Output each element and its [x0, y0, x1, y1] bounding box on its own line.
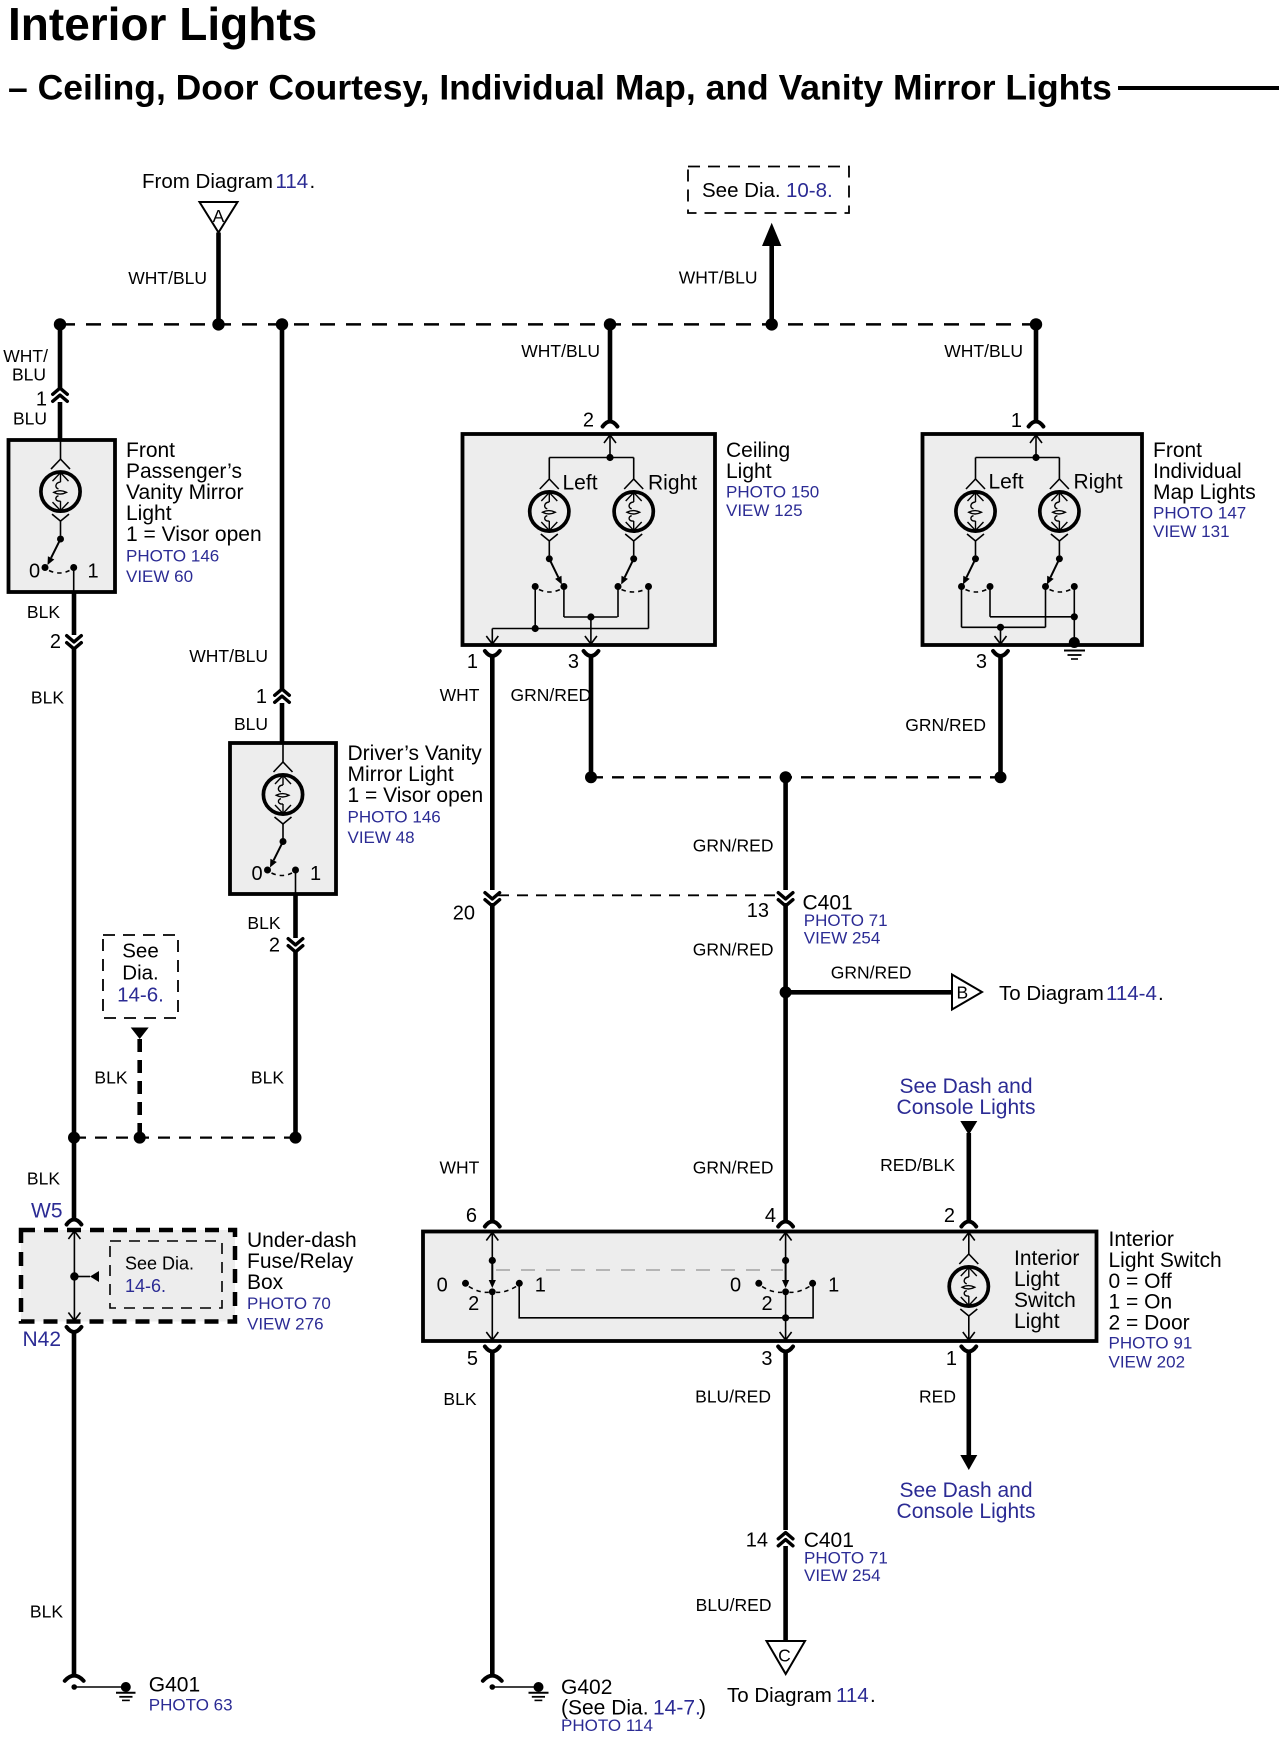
wire to lower junction: [293, 951, 298, 1138]
svg-text:Dia.: Dia.: [122, 962, 158, 985]
connector A triangle: [200, 202, 238, 233]
switch mechanical link (dashed gray): [496, 1269, 783, 1271]
wire bus to map lights: [1034, 324, 1039, 420]
ceiling left switch: [532, 555, 568, 617]
svg-text:PHOTO 71: PHOTO 71: [804, 911, 888, 930]
svg-text:GRN/RED: GRN/RED: [831, 963, 912, 983]
terminal 3 (ceiling): [568, 651, 599, 673]
svg-text:14-6.: 14-6.: [117, 984, 164, 1007]
label C401 lower: [804, 1529, 888, 1585]
svg-text:VIEW 60: VIEW 60: [126, 567, 193, 586]
wire GRN/RED to C401: [783, 777, 788, 890]
label interior light switch: [1109, 1228, 1222, 1372]
svg-text:BLK: BLK: [443, 1389, 476, 1409]
svg-text:GRN/RED: GRN/RED: [693, 1158, 774, 1178]
switch 4-3: [730, 1233, 839, 1341]
svg-text:Fuse/Relay: Fuse/Relay: [247, 1250, 354, 1273]
connector 1 (passenger vanity): [36, 388, 67, 410]
svg-text:2: 2: [50, 631, 61, 653]
svg-text:2: 2: [944, 1205, 955, 1227]
svg-text:VIEW 276: VIEW 276: [247, 1315, 324, 1334]
arrow down from see-dash: [960, 1121, 977, 1135]
wire map pin3 GRN/RED down: [998, 656, 1003, 777]
map left bulb: [956, 458, 995, 556]
svg-text:Ceiling: Ceiling: [726, 439, 790, 462]
under-dash fuse/relay box: [21, 1230, 235, 1322]
svg-text:From Diagram: From Diagram: [142, 170, 273, 193]
passenger vanity switch: [29, 536, 99, 593]
svg-text:B: B: [957, 983, 969, 1003]
svg-text:BLU: BLU: [234, 714, 268, 734]
svg-text:Under-dash: Under-dash: [247, 1229, 357, 1252]
terminal W5: [31, 1200, 81, 1225]
wire into vanity box: [58, 402, 63, 440]
label interior light switch light: [1014, 1247, 1079, 1333]
wire below driver box: [293, 894, 298, 938]
connector 2 (passenger vanity): [50, 631, 81, 653]
terminal pin 2: [961, 1222, 976, 1227]
arrow down RED: [960, 1455, 977, 1470]
svg-text:To Diagram: To Diagram: [999, 982, 1104, 1005]
wire bus to driver vanity: [280, 324, 285, 691]
svg-text:1: 1: [88, 561, 99, 583]
label To Diagram 114: [727, 1684, 876, 1707]
wire RED pin1 down: [966, 1351, 971, 1456]
svg-text:Left: Left: [563, 472, 598, 495]
svg-text:RED/BLK: RED/BLK: [880, 1155, 955, 1175]
svg-text:Box: Box: [247, 1271, 284, 1294]
header rule: [1118, 86, 1279, 90]
wire BLU/RED to connector C: [783, 1546, 788, 1641]
svg-text:GRN/RED: GRN/RED: [693, 940, 774, 960]
svg-text:Driver’s Vanity: Driver’s Vanity: [348, 742, 483, 765]
label ceiling light: [726, 439, 819, 520]
terminal pin 1: [961, 1347, 976, 1352]
terminal 3 (map): [976, 651, 1008, 673]
svg-text:Front: Front: [1153, 439, 1202, 462]
front passenger vanity mirror light box: [9, 440, 116, 592]
svg-text:0: 0: [252, 863, 263, 885]
bus junction x=771.7: [766, 318, 778, 330]
svg-text:PHOTO 91: PHOTO 91: [1109, 1334, 1193, 1353]
svg-text:1 = Visor open: 1 = Visor open: [348, 784, 484, 807]
svg-text:WHT: WHT: [440, 685, 480, 705]
front individual map lights box: [923, 434, 1143, 645]
svg-text:2: 2: [761, 1293, 772, 1315]
svg-text:Individual: Individual: [1153, 460, 1242, 483]
terminal pin 6: [485, 1222, 500, 1227]
svg-text:.: .: [1158, 982, 1164, 1005]
terminal 2 (ceiling light): [583, 410, 618, 432]
svg-text:See Dash and: See Dash and: [899, 1479, 1032, 1502]
wire GRN/RED to switch pin 4: [783, 903, 788, 1222]
terminal N42: [22, 1327, 81, 1351]
map internal feed: [976, 435, 1060, 461]
wire junction to W5: [72, 1138, 77, 1218]
connector C triangle: [767, 1641, 806, 1674]
svg-text:1 = Visor open: 1 = Visor open: [126, 523, 262, 546]
ceiling right switch: [615, 555, 653, 628]
svg-text:G401: G401: [149, 1674, 200, 1697]
ceiling pin3 collector: [564, 613, 618, 644]
svg-text:Interior: Interior: [1109, 1228, 1174, 1251]
svg-text:W5: W5: [31, 1200, 63, 1223]
wire ceiling pin3 GRN/RED down: [589, 656, 594, 777]
svg-text:Right: Right: [1074, 471, 1123, 494]
terminal pin 3: [778, 1347, 793, 1352]
svg-text:Light: Light: [1014, 1268, 1060, 1291]
junction dot B branch: [780, 986, 792, 998]
junction dot: [780, 771, 792, 783]
svg-text:See: See: [122, 940, 158, 963]
dashed BLK wire: [137, 1039, 142, 1138]
svg-text:4: 4: [765, 1205, 776, 1227]
ceiling right bulb: [614, 458, 653, 556]
driver vanity mirror light box: [230, 743, 336, 894]
svg-text:6: 6: [466, 1205, 477, 1227]
svg-text:1: 1: [256, 686, 267, 708]
svg-text:14-7.: 14-7.: [653, 1697, 701, 1720]
svg-text:3: 3: [568, 651, 579, 673]
svg-text:0: 0: [730, 1275, 741, 1297]
svg-text:WHT/BLU: WHT/BLU: [128, 268, 207, 288]
svg-text:BLK: BLK: [251, 1068, 284, 1088]
svg-text:C: C: [778, 1646, 791, 1666]
svg-text:1: 1: [310, 863, 321, 885]
svg-text:BLU: BLU: [13, 409, 47, 429]
svg-text:3: 3: [976, 651, 987, 673]
svg-text:PHOTO 71: PHOTO 71: [804, 1549, 888, 1568]
lower junction dashed bus: [74, 1136, 296, 1138]
svg-text:See Dia.: See Dia.: [125, 1254, 194, 1274]
svg-text:Mirror Light: Mirror Light: [348, 763, 454, 786]
svg-text:Console Lights: Console Lights: [897, 1500, 1036, 1523]
arrow down from See Dia 14-6: [131, 1028, 149, 1040]
svg-text:Switch: Switch: [1014, 1289, 1076, 1312]
arrow up to See Dia 10-8: [762, 223, 781, 325]
svg-text:VIEW 254: VIEW 254: [804, 1566, 881, 1585]
svg-text:5: 5: [467, 1348, 478, 1370]
connector 20 (C401): [453, 893, 500, 925]
label To Diagram 114-4: [999, 982, 1164, 1005]
svg-text:1: 1: [1011, 410, 1022, 432]
ceiling pin1 collector: [486, 587, 648, 645]
svg-text:N42: N42: [22, 1328, 61, 1351]
wire bus to ceiling light: [608, 324, 613, 420]
label From Diagram 114: [142, 170, 315, 193]
svg-text:Interior Lights: Interior Lights: [8, 0, 317, 50]
label driver vanity mirror light: [348, 742, 484, 847]
svg-text:1: 1: [36, 389, 47, 411]
label front passenger vanity mirror light: [126, 439, 262, 586]
See Dia. 14-6 box: [103, 935, 178, 1018]
svg-text:1: 1: [828, 1275, 839, 1297]
svg-text:GRN/RED: GRN/RED: [905, 715, 986, 735]
wire from A to bus: [216, 233, 221, 325]
svg-text:2: 2: [583, 410, 594, 432]
svg-text:VIEW 131: VIEW 131: [1153, 522, 1230, 541]
svg-text:PHOTO 147: PHOTO 147: [1153, 504, 1246, 523]
svg-text:14: 14: [746, 1530, 768, 1552]
junction dot: [290, 1132, 302, 1144]
svg-text:GRN/RED: GRN/RED: [693, 836, 774, 856]
svg-text:VIEW 202: VIEW 202: [1109, 1353, 1186, 1372]
svg-text:PHOTO 150: PHOTO 150: [726, 483, 819, 502]
interior light switch box: [423, 1232, 1097, 1342]
wire BLK pin5 to G402: [490, 1351, 495, 1676]
interior light switch bulb: [949, 1233, 988, 1341]
svg-text:BLK: BLK: [27, 1169, 60, 1189]
svg-text:Light: Light: [126, 502, 172, 525]
bus junction x=218.5: [212, 318, 224, 330]
wire N42 to G401: [72, 1331, 77, 1676]
svg-text:Light: Light: [1014, 1310, 1060, 1333]
svg-text:BLU: BLU: [12, 365, 46, 385]
wire BLU/RED pin3 down: [783, 1351, 788, 1530]
svg-text:13: 13: [747, 900, 769, 922]
svg-text:VIEW 125: VIEW 125: [726, 501, 803, 520]
ceiling left bulb: [530, 458, 569, 556]
bus junction x=1036: [1030, 318, 1042, 330]
svg-text:WHT/BLU: WHT/BLU: [679, 268, 758, 288]
svg-text:Light: Light: [726, 460, 772, 483]
svg-text:WHT/BLU: WHT/BLU: [189, 646, 268, 666]
svg-text:PHOTO 146: PHOTO 146: [126, 547, 219, 566]
svg-text:0: 0: [437, 1275, 448, 1297]
svg-text:2 = Door: 2 = Door: [1109, 1312, 1190, 1335]
svg-text:PHOTO 63: PHOTO 63: [149, 1696, 233, 1715]
svg-text:114-4: 114-4: [1106, 982, 1157, 1005]
junction dot: [585, 771, 597, 783]
svg-text:BLK: BLK: [27, 602, 60, 622]
wire below vanity box: [72, 592, 77, 635]
map right bulb: [1040, 458, 1079, 556]
wire ceiling pin1 WHT down: [490, 656, 495, 890]
switch1-switch2 tie: [519, 1283, 813, 1321]
ground G402: [483, 1676, 706, 1735]
svg-text:0: 0: [29, 561, 40, 583]
svg-text:PHOTO 146: PHOTO 146: [348, 808, 441, 827]
svg-text:114: 114: [276, 170, 309, 193]
label See Dash and Console Lights (lower): [897, 1479, 1036, 1523]
svg-text:Console Lights: Console Lights: [897, 1096, 1036, 1119]
junction dot: [134, 1132, 146, 1144]
svg-text:20: 20: [453, 903, 475, 925]
svg-text:Interior: Interior: [1014, 1247, 1079, 1270]
svg-text:.: .: [870, 1684, 876, 1707]
wire to lower junction: [72, 648, 77, 1138]
svg-text:See Dash and: See Dash and: [899, 1075, 1032, 1098]
map internal ground net: [990, 587, 1078, 642]
svg-text:1 = On: 1 = On: [1109, 1291, 1173, 1314]
label See Dash and Console Lights: [897, 1075, 1036, 1119]
driver vanity bulb: [263, 743, 302, 839]
svg-text:1: 1: [946, 1348, 957, 1370]
label front individual map lights: [1153, 439, 1256, 541]
svg-text:BLK: BLK: [247, 913, 280, 933]
svg-text:RED: RED: [919, 1387, 956, 1407]
svg-text:): ): [699, 1697, 706, 1720]
svg-text:Light Switch: Light Switch: [1109, 1249, 1222, 1272]
junction dot: [68, 1132, 80, 1144]
terminal 1 (map lights): [1011, 410, 1044, 432]
svg-text:BLU/RED: BLU/RED: [695, 1387, 771, 1407]
svg-text:WHT/: WHT/: [3, 346, 48, 366]
junction dot: [995, 771, 1007, 783]
svg-text:14-6.: 14-6.: [125, 1276, 166, 1296]
svg-text:See Dia.: See Dia.: [702, 179, 781, 202]
svg-text:10-8.: 10-8.: [786, 179, 833, 202]
bus junction x=60: [54, 318, 66, 330]
switch 6-5: [437, 1233, 546, 1341]
map right switch: [1042, 555, 1078, 627]
svg-text:Left: Left: [989, 471, 1024, 494]
svg-text:PHOTO 70: PHOTO 70: [247, 1294, 331, 1313]
svg-text:Vanity Mirror: Vanity Mirror: [126, 481, 243, 504]
svg-text:VIEW 254: VIEW 254: [804, 929, 881, 948]
svg-text:2: 2: [468, 1293, 479, 1315]
See Dia. 14-6 inner box: [110, 1241, 222, 1308]
svg-text:.: .: [310, 170, 316, 193]
svg-text:114: 114: [836, 1684, 869, 1707]
svg-text:3: 3: [761, 1348, 772, 1370]
terminal pin 4: [778, 1222, 793, 1227]
svg-text:Passenger’s: Passenger’s: [126, 460, 242, 483]
svg-text:– Ceiling, Door Courtesy, Indi: – Ceiling, Door Courtesy, Individual Map…: [8, 68, 1112, 108]
svg-text:2: 2: [269, 935, 280, 957]
driver vanity switch: [252, 838, 322, 894]
wire bus to passenger vanity: [58, 324, 63, 390]
wire RED/BLK to pin 2: [966, 1133, 971, 1222]
map pin3 collector: [962, 624, 1046, 644]
connector 1 (driver vanity): [256, 686, 289, 708]
map internal ground symbol: [1064, 637, 1085, 659]
svg-text:1: 1: [535, 1275, 546, 1297]
svg-text:1: 1: [467, 651, 478, 673]
svg-text:VIEW 48: VIEW 48: [348, 828, 415, 847]
ground G401: [65, 1674, 233, 1715]
C401 tie dashed line: [498, 894, 780, 896]
svg-text:PHOTO 114: PHOTO 114: [561, 1716, 653, 1735]
See Dia. 10-8 box: [688, 167, 849, 214]
svg-text:GRN/RED: GRN/RED: [511, 685, 592, 705]
bus junction x=282: [276, 318, 288, 330]
svg-text:WHT: WHT: [439, 1158, 479, 1178]
fuse box internal lead: [68, 1231, 99, 1321]
svg-text:BLK: BLK: [31, 688, 64, 708]
GRN/RED junction dashed bus: [591, 776, 1001, 778]
WHT/BLU bus (dashed): [60, 323, 1036, 326]
label C401: [803, 892, 888, 948]
svg-text:WHT/BLU: WHT/BLU: [521, 341, 600, 361]
connector 13 (C401): [747, 893, 793, 922]
wire WHT to switch pin 6: [490, 903, 495, 1222]
wire to connector B: [786, 990, 952, 995]
svg-text:Map Lights: Map Lights: [1153, 481, 1256, 504]
svg-text:BLU/RED: BLU/RED: [696, 1595, 772, 1615]
bus junction x=610: [604, 318, 616, 330]
label under-dash fuse/relay box: [247, 1229, 357, 1334]
connector 2 (driver vanity): [269, 935, 303, 957]
svg-text:To Diagram: To Diagram: [727, 1684, 832, 1707]
connector B triangle: [952, 975, 982, 1010]
svg-text:WHT/BLU: WHT/BLU: [944, 341, 1023, 361]
terminal 1 (ceiling): [467, 651, 500, 673]
svg-text:Front: Front: [126, 439, 175, 462]
svg-text:BLK: BLK: [30, 1602, 63, 1622]
map left switch: [958, 555, 994, 627]
terminal pin 5: [485, 1347, 500, 1352]
connector 14 (C401): [746, 1530, 793, 1552]
svg-text:Right: Right: [648, 472, 697, 495]
svg-text:BLK: BLK: [94, 1068, 127, 1088]
svg-text:A: A: [213, 206, 225, 226]
wire into driver box: [280, 703, 285, 743]
passenger vanity bulb: [41, 440, 80, 536]
ceiling light box: [463, 434, 716, 645]
ceiling internal feed: [549, 435, 633, 461]
